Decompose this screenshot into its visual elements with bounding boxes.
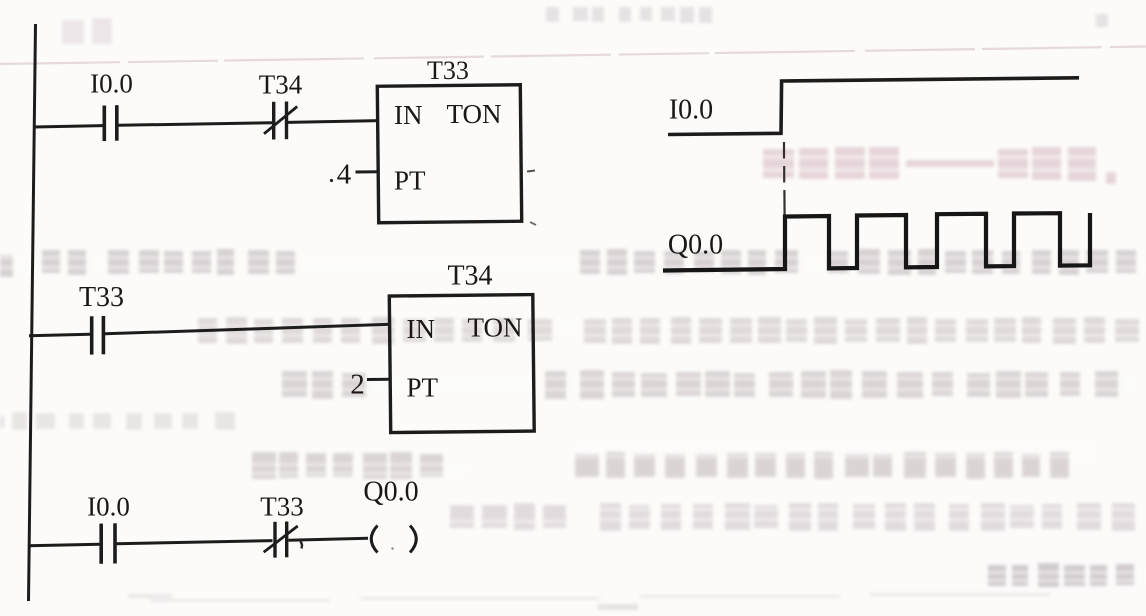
bleed row G	[450, 505, 474, 528]
wire rung 2 right	[105, 324, 391, 334]
wire PT input (box 1)	[356, 170, 380, 173]
svg-text:2: 2	[350, 369, 365, 401]
svg-text:T34: T34	[447, 261, 492, 292]
dashed edge marker	[783, 142, 786, 216]
bleed blob top-left	[62, 20, 84, 44]
bleed row E2	[12, 412, 27, 430]
bleed texture stripes	[0, 155, 1146, 582]
contact T33 (NO) rung 2	[92, 316, 104, 355]
svg-text:IN: IN	[394, 100, 423, 130]
contact I0.0 (NO) rung 3	[101, 523, 115, 564]
bleed row C	[0, 255, 13, 277]
speck below right of box 1	[530, 222, 536, 225]
wire PT input (box 2)	[367, 378, 391, 381]
coil Q0.0	[371, 526, 416, 553]
contact T33 (NC) rung 3	[264, 522, 298, 558]
bleed row D	[198, 318, 217, 343]
svg-text:T33: T33	[427, 56, 469, 85]
svg-text:I0.0: I0.0	[87, 492, 130, 522]
wire rung 1 middle	[119, 123, 273, 126]
timer box T33 TON	[377, 85, 521, 223]
svg-text:PT: PT	[394, 166, 426, 196]
bleed row A	[546, 7, 559, 22]
wire rung 3 right	[289, 538, 369, 540]
bleed faint bottom dotted rule	[150, 593, 1050, 602]
svg-text:I0.0: I0.0	[90, 69, 133, 99]
contact T34 (NC) rung 1	[264, 102, 297, 140]
wire rung 3 middle	[117, 541, 273, 544]
wire rung 3 left	[28, 544, 100, 546]
svg-text:TON: TON	[468, 313, 523, 343]
bleed row E	[282, 371, 307, 397]
svg-text:PT: PT	[407, 373, 439, 403]
left power rail	[29, 24, 36, 601]
speck comma after contact rung 3	[300, 542, 302, 549]
bleed row B heading	[763, 149, 794, 178]
waveform Q0.0	[663, 213, 1090, 271]
svg-text:T34: T34	[259, 70, 303, 100]
speck right of box 1	[527, 171, 535, 172]
svg-text:Q0.0: Q0.0	[363, 477, 418, 508]
svg-text:IN: IN	[407, 314, 436, 344]
waveform I0.0	[668, 78, 1079, 135]
timer box T34 TON	[389, 295, 534, 433]
svg-text:TON: TON	[447, 99, 502, 129]
wire rung 2 left	[29, 334, 90, 336]
bleed row H	[988, 565, 1006, 586]
svg-text:4: 4	[337, 159, 352, 191]
contact I0.0 (NO) rung 1	[104, 105, 117, 141]
speck period before 4	[330, 179, 333, 182]
svg-text:T33: T33	[79, 282, 124, 313]
wire rung 1 right	[288, 121, 379, 123]
svg-text:T33: T33	[260, 492, 304, 522]
bleed specks bottom	[598, 604, 638, 610]
svg-text:Q0.0: Q0.0	[668, 230, 723, 261]
speck comma inside coil	[391, 547, 393, 549]
bleed row F	[252, 452, 276, 479]
wire rung 1 left	[34, 126, 103, 127]
svg-text:I0.0: I0.0	[669, 95, 713, 126]
faint page rule	[0, 47, 1146, 65]
